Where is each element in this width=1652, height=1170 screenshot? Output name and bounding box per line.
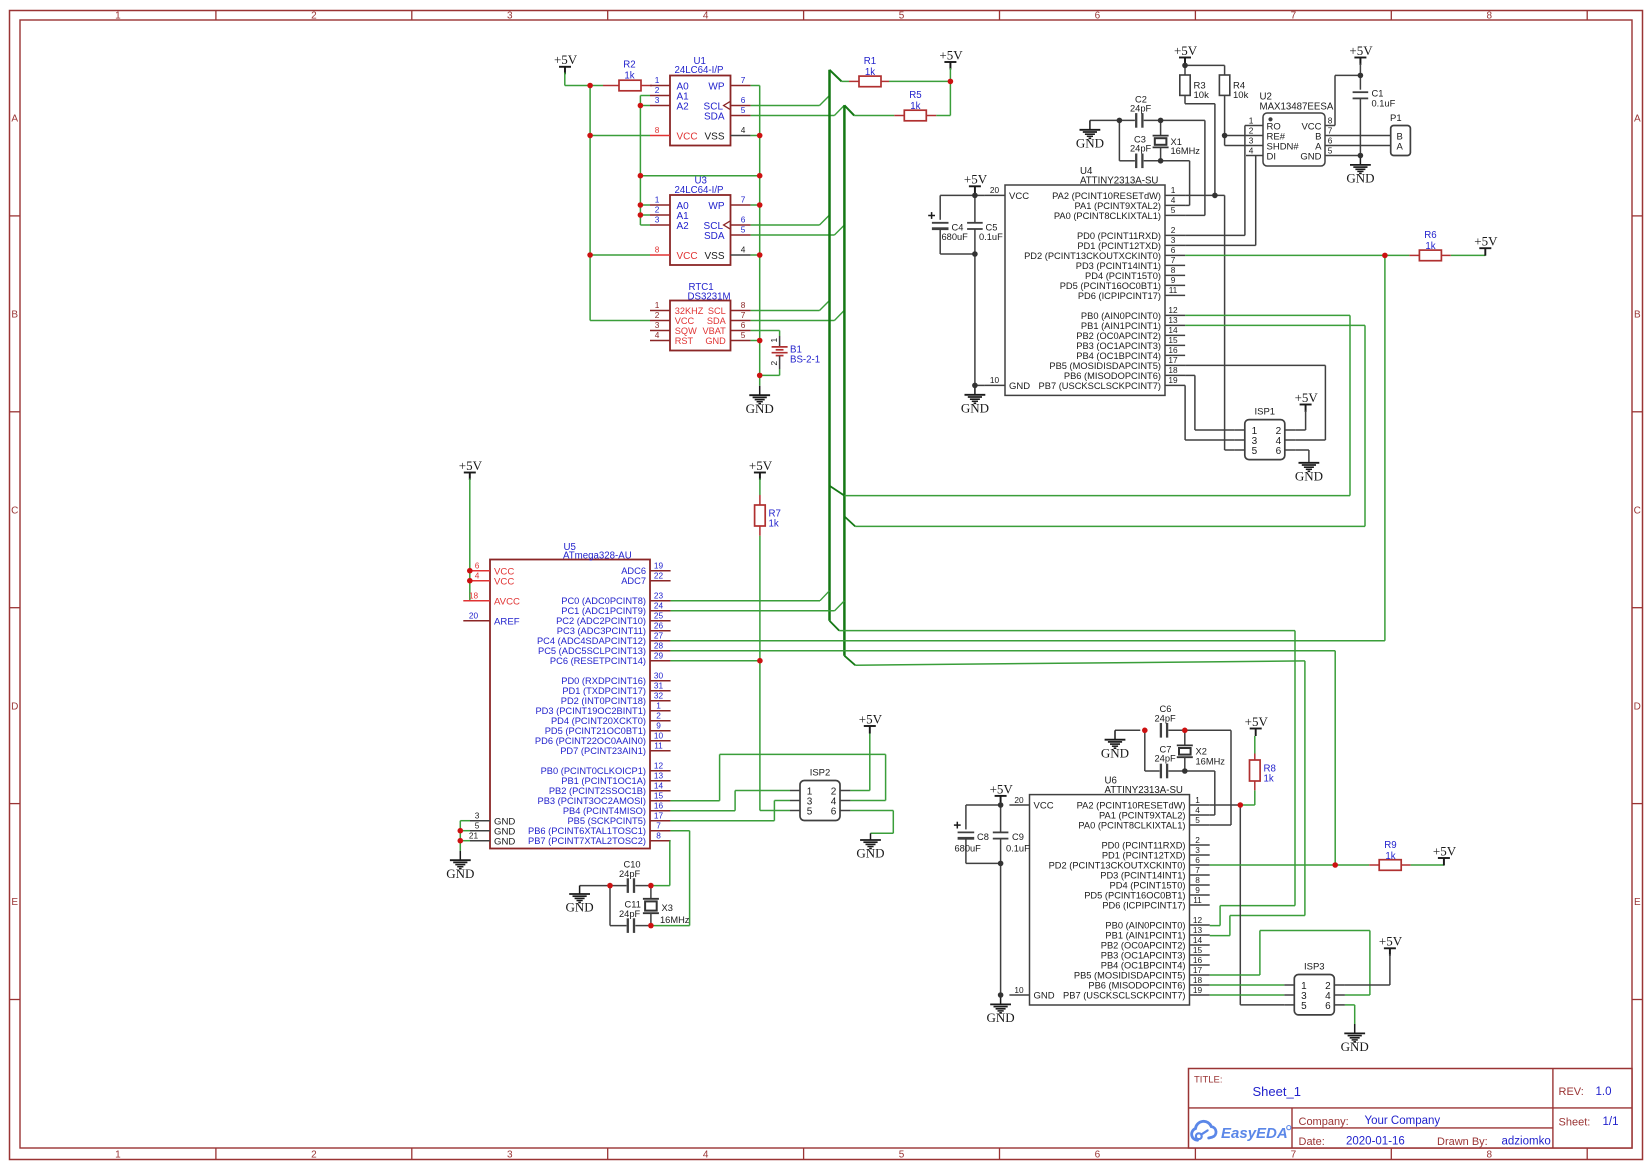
svg-text:VCC: VCC	[677, 131, 698, 142]
wire C3 to U4 PA1 XTAL2	[1161, 161, 1190, 206]
wire U5 PB7 to crystal	[651, 841, 671, 886]
chip U1 24LC64-I/P	[650, 56, 751, 146]
node junction	[638, 202, 644, 208]
wire U4 PB7 to ISP1 pin3	[1185, 385, 1235, 440]
node junction GND pin21	[458, 838, 464, 844]
svg-text:16MHz: 16MHz	[660, 915, 690, 925]
svg-text:24pF: 24pF	[1155, 753, 1177, 763]
svg-text:0.1uF: 0.1uF	[979, 232, 1003, 242]
wire ISP1 pin2 +5V	[1295, 411, 1305, 431]
svg-text:SQW: SQW	[675, 326, 697, 336]
wire RTC1 GND	[751, 340, 760, 342]
svg-text:7: 7	[741, 195, 746, 205]
wire C4/C5 gnd rail	[940, 253, 975, 255]
svg-text:6: 6	[475, 561, 480, 571]
wire U5 PC0 to SCL bus	[671, 591, 830, 601]
svg-text:1k: 1k	[624, 71, 634, 82]
capacitor C10 24pF	[580, 860, 651, 893]
svg-text:8: 8	[741, 300, 746, 310]
resistor R6 1k	[1385, 230, 1485, 261]
svg-text:VCC: VCC	[1034, 801, 1054, 812]
svg-text:10: 10	[990, 375, 1000, 385]
svg-text:680uF: 680uF	[942, 232, 969, 242]
svg-text:19: 19	[654, 561, 664, 571]
svg-text:4: 4	[741, 245, 746, 255]
svg-text:2: 2	[655, 205, 660, 215]
wire SCL bus extension to U6 PB0	[830, 621, 1296, 926]
svg-text:3: 3	[655, 320, 660, 330]
svg-text:WP: WP	[708, 81, 724, 92]
svg-text:3: 3	[655, 95, 660, 105]
svg-text:17: 17	[1168, 355, 1178, 365]
power +5V net flag (R6)	[1474, 234, 1498, 256]
wire U1 A1/A2 tie	[640, 96, 650, 226]
crystal X3 16MHz	[643, 886, 690, 926]
svg-text:24pF: 24pF	[619, 909, 641, 919]
power +5V net flag (U1 area)	[554, 52, 578, 74]
svg-text:PC5 (ADC5SCLPCINT13): PC5 (ADC5SCLPCINT13)	[538, 646, 646, 656]
wire PA2 to ISP1 pin5	[1225, 195, 1235, 450]
node junction A2	[638, 103, 644, 109]
svg-text:3: 3	[1195, 845, 1200, 855]
svg-text:17: 17	[654, 811, 664, 821]
svg-text:680uF: 680uF	[955, 843, 982, 853]
node junction	[998, 992, 1004, 998]
svg-text:25: 25	[654, 611, 664, 621]
svg-text:PD4 (PCINT20XCKT0): PD4 (PCINT20XCKT0)	[551, 716, 646, 726]
svg-text:24: 24	[654, 601, 664, 611]
svg-text:PB6 (PCINT6XTAL1TOSC1): PB6 (PCINT6XTAL1TOSC1)	[528, 826, 646, 836]
svg-text:6: 6	[831, 806, 837, 817]
power +5V net flag (U5)	[459, 458, 483, 480]
svg-text:1k: 1k	[910, 101, 920, 112]
node junction	[972, 383, 978, 389]
svg-text:1: 1	[655, 300, 660, 310]
svg-text:14: 14	[1193, 935, 1203, 945]
ground GND (U4)	[961, 385, 989, 415]
svg-text:+5V: +5V	[1295, 390, 1319, 405]
node junction	[998, 861, 1004, 867]
svg-text:1.0: 1.0	[1596, 1086, 1612, 1098]
svg-text:4: 4	[1195, 805, 1200, 815]
wire ISP2 pin2 +5V	[850, 734, 869, 791]
svg-text:C: C	[11, 505, 18, 516]
svg-text:+5V: +5V	[1349, 43, 1373, 58]
svg-text:1k: 1k	[1264, 774, 1274, 785]
svg-text:C5: C5	[986, 222, 998, 232]
node junction	[1158, 158, 1164, 164]
svg-text:PD2 (PCINT13CKOUTXCKINT0): PD2 (PCINT13CKOUTXCKINT0)	[1024, 251, 1161, 261]
svg-text:28: 28	[654, 641, 664, 651]
svg-text:15: 15	[1168, 335, 1178, 345]
svg-text:3: 3	[1171, 235, 1176, 245]
svg-text:R5: R5	[909, 90, 921, 101]
svg-text:D: D	[1634, 701, 1641, 712]
node junction	[972, 193, 978, 199]
node junction	[1182, 728, 1188, 734]
wire SCL bus	[830, 70, 842, 621]
node junction	[648, 923, 654, 929]
svg-text:SDA: SDA	[704, 231, 725, 242]
svg-text:Company:: Company:	[1299, 1116, 1349, 1128]
resistor R8 1k	[1240, 736, 1276, 805]
svg-text:PD4 (PCINT15T0): PD4 (PCINT15T0)	[1110, 880, 1186, 890]
svg-text:29: 29	[654, 651, 664, 661]
svg-text:31: 31	[654, 681, 664, 691]
svg-text:PB7 (USCKSCLSCKPCINT7): PB7 (USCKSCLSCKPCINT7)	[1063, 990, 1185, 1000]
svg-text:B: B	[11, 309, 18, 320]
svg-text:A2: A2	[677, 101, 690, 112]
node junction	[757, 202, 763, 208]
node junction RTC GND	[757, 338, 763, 344]
svg-text:WP: WP	[708, 201, 724, 212]
svg-text:3: 3	[507, 1149, 513, 1160]
node junction	[998, 802, 1004, 808]
node junction	[1142, 728, 1148, 734]
svg-text:VSS: VSS	[704, 251, 724, 262]
svg-text:VCC: VCC	[494, 576, 514, 587]
svg-text:PD7 (PCINT23AIN1): PD7 (PCINT23AIN1)	[560, 746, 646, 756]
svg-text:12: 12	[654, 761, 664, 771]
svg-text:PB1 (AIN1PCINT1): PB1 (AIN1PCINT1)	[1105, 930, 1185, 940]
svg-text:C1: C1	[1372, 89, 1384, 99]
svg-text:PB3 (OC1APCINT3): PB3 (OC1APCINT3)	[1076, 341, 1161, 351]
svg-text:B: B	[1634, 309, 1641, 320]
svg-text:+5V: +5V	[459, 458, 483, 473]
wire U2 VCC to +5V	[1325, 75, 1360, 125]
svg-text:4: 4	[741, 125, 746, 135]
wire PA2 to ISP3 pin5	[1240, 805, 1284, 1005]
svg-text:SDA: SDA	[707, 316, 727, 326]
wire U3 VSS	[751, 254, 760, 256]
svg-text:5: 5	[1252, 446, 1258, 457]
svg-text:4: 4	[1171, 195, 1176, 205]
svg-text:PB5 (MOSIDISDAPCINT5): PB5 (MOSIDISDAPCINT5)	[1049, 361, 1161, 371]
wire U4 PB0 link	[1185, 314, 1350, 316]
svg-text:PC6 (RESETPCINT14): PC6 (RESETPCINT14)	[550, 656, 646, 666]
svg-text:9: 9	[1171, 275, 1176, 285]
wire SCL bus to U4 PB0 link	[830, 315, 1351, 495]
wire U2 GND	[1325, 155, 1360, 157]
svg-text:RST: RST	[675, 336, 694, 346]
svg-text:+5V: +5V	[749, 458, 773, 473]
svg-text:1/1: 1/1	[1603, 1116, 1619, 1128]
wire U3 A2	[640, 224, 650, 226]
svg-text:4: 4	[1249, 145, 1254, 155]
svg-text:7: 7	[656, 821, 661, 831]
node junction +5V/R2	[587, 83, 593, 89]
svg-text:8: 8	[1171, 265, 1176, 275]
wire C8/C9 gnd rail	[966, 862, 1001, 864]
wire ISP3 pin6 GND	[1345, 1005, 1355, 1034]
node junction R9	[1332, 862, 1338, 868]
wire U4 PD1 to U2 DI	[1185, 156, 1256, 246]
svg-text:1: 1	[115, 1149, 121, 1160]
svg-text:ADC6: ADC6	[621, 566, 646, 576]
wire ISP2 pin6 GND	[850, 811, 893, 834]
svg-text:1k: 1k	[1385, 851, 1395, 862]
capacitor C2 24pF	[1090, 94, 1161, 127]
ground GND (RTC area)	[746, 386, 774, 416]
svg-text:6: 6	[1195, 855, 1200, 865]
svg-text:PC4 (ADC4SDAPCINT12): PC4 (ADC4SDAPCINT12)	[537, 636, 646, 646]
svg-text:PA0 (PCINT8CLKIXTAL1): PA0 (PCINT8CLKIXTAL1)	[1078, 820, 1185, 830]
node junction	[638, 173, 644, 179]
svg-text:DS3231M: DS3231M	[688, 291, 731, 302]
wire SDA bus to U4 PB1 link	[844, 325, 1365, 526]
node junction R7/PC6	[757, 658, 763, 664]
node junction GND pin5	[458, 828, 464, 834]
wire battery to ground rail	[760, 369, 780, 375]
svg-text:GND: GND	[1346, 171, 1374, 186]
node junction	[1182, 63, 1188, 69]
svg-text:1: 1	[656, 701, 661, 711]
wire U5 PB3 MOSI to ISP2	[671, 754, 886, 800]
svg-text:PD5 (PCINT21OC0BT1): PD5 (PCINT21OC0BT1)	[545, 726, 646, 736]
svg-text:3: 3	[655, 215, 660, 225]
svg-text:3: 3	[475, 811, 480, 821]
svg-text:GND: GND	[746, 401, 774, 416]
svg-text:PD0 (PCINT11RXD): PD0 (PCINT11RXD)	[1101, 840, 1185, 850]
svg-text:20: 20	[469, 611, 479, 621]
power +5V net flag (ISP1)	[1295, 390, 1319, 412]
svg-text:5: 5	[899, 10, 905, 21]
svg-text:GND: GND	[987, 1010, 1015, 1025]
EasyEDA logo	[1192, 1121, 1291, 1142]
svg-text:PA2 (PCINT10RESETdW): PA2 (PCINT10RESETdW)	[1077, 800, 1186, 810]
resistor R9 1k	[1335, 840, 1444, 871]
node junction	[648, 883, 654, 889]
wire U5 PB5 SCK to ISP2	[671, 801, 790, 821]
svg-text:PB2 (PCINT2SSOC1B): PB2 (PCINT2SSOC1B)	[549, 786, 646, 796]
svg-text:8: 8	[655, 245, 660, 255]
wire U1 VSS	[751, 135, 760, 137]
wire RTC1 VCC	[590, 320, 650, 322]
wire ISP3 pin2 +5V	[1345, 954, 1390, 985]
ground GND (U5)	[446, 851, 474, 881]
svg-text:X2: X2	[1196, 746, 1207, 756]
svg-text:SDA: SDA	[704, 111, 725, 122]
svg-text:2: 2	[1195, 835, 1200, 845]
svg-text:16: 16	[1168, 345, 1178, 355]
capacitor C4 680uF	[928, 195, 975, 254]
svg-text:GND: GND	[1076, 135, 1104, 150]
capacitor C1 0.1uF	[1353, 75, 1396, 155]
svg-text:7: 7	[741, 75, 746, 85]
power +5V net flag (R1)	[939, 47, 963, 81]
svg-text:GND: GND	[566, 900, 594, 915]
svg-text:32: 32	[654, 691, 664, 701]
svg-text:8: 8	[1195, 875, 1200, 885]
wire U4 PA2 row	[1185, 194, 1225, 196]
resistor R5 1k	[854, 81, 950, 120]
svg-text:22: 22	[654, 571, 664, 581]
chip RTC1 DS3231M	[650, 282, 751, 351]
node junction U1 VSS	[757, 133, 763, 139]
wire U6 PB7 to ISP3 pin3	[1210, 994, 1285, 996]
svg-text:9: 9	[656, 721, 661, 731]
wire U4 PB5 to ISP1 pin4	[1185, 365, 1325, 440]
chip U5 ATmega328-AU	[463, 542, 670, 849]
svg-text:1k: 1k	[865, 67, 875, 78]
wire U5 PC4 to U4 PD2 net	[671, 255, 1385, 640]
svg-text:20: 20	[1014, 795, 1024, 805]
wire U4 PD0 to U2 RO	[1185, 126, 1246, 236]
svg-text:PD2 (INT0PCINT18): PD2 (INT0PCINT18)	[561, 696, 646, 706]
svg-text:2: 2	[311, 10, 317, 21]
chip U6 ATTINY2313A-SU	[1009, 776, 1209, 1005]
svg-text:PC3 (ADC3PCINT11): PC3 (ADC3PCINT11)	[557, 626, 646, 636]
svg-text:GND: GND	[1300, 152, 1321, 163]
svg-text:13: 13	[1168, 315, 1178, 325]
svg-text:32KHZ: 32KHZ	[675, 306, 704, 316]
resistor R2 1k	[590, 60, 652, 91]
svg-text:PD3 (PCINT14INT1): PD3 (PCINT14INT1)	[1100, 870, 1185, 880]
svg-text:4: 4	[655, 330, 660, 340]
crystal X2 16MHz	[1177, 730, 1225, 771]
svg-text:2: 2	[656, 711, 661, 721]
svg-text:VBAT: VBAT	[702, 326, 726, 336]
svg-text:2: 2	[655, 310, 660, 320]
svg-text:6: 6	[1276, 446, 1282, 457]
ground GND (U2)	[1346, 156, 1374, 186]
ground GND (U6)	[987, 995, 1015, 1025]
node junction U3 VCC	[587, 252, 593, 258]
svg-text:1: 1	[1195, 795, 1200, 805]
svg-text:8: 8	[655, 125, 660, 135]
svg-text:2020-01-16: 2020-01-16	[1346, 1136, 1405, 1148]
svg-text:5: 5	[741, 330, 746, 340]
wire tie to ground rail	[640, 175, 759, 177]
svg-text:15: 15	[1193, 945, 1203, 955]
connector ISP3	[1284, 962, 1345, 1015]
svg-text:PB3 (OC1APCINT3): PB3 (OC1APCINT3)	[1101, 950, 1186, 960]
wire U5 PC6 reset	[671, 660, 760, 662]
svg-text:ATTINY2313A-SU: ATTINY2313A-SU	[1080, 175, 1158, 186]
svg-text:5: 5	[899, 1149, 905, 1160]
ground GND (X2 area)	[1101, 730, 1129, 760]
svg-text:2: 2	[769, 361, 779, 366]
wire U6 PB6 to ISP3 pin1	[1210, 984, 1285, 986]
svg-text:GND: GND	[1009, 381, 1030, 392]
wire U2 A to P1	[1325, 145, 1391, 147]
svg-text:C9: C9	[1012, 832, 1024, 842]
power +5V net flag (ISP3)	[1379, 934, 1403, 956]
node junction R1/+5V	[948, 79, 954, 85]
svg-text:P1: P1	[1390, 113, 1402, 124]
svg-text:5: 5	[741, 225, 746, 235]
wire +5V to U5 VCC rail	[469, 479, 471, 601]
svg-text:PD5 (PCINT16OC0BT1): PD5 (PCINT16OC0BT1)	[1084, 890, 1185, 900]
node junction R3/PA2	[1212, 193, 1218, 199]
wire U6 PD2 net	[1210, 864, 1336, 866]
wire U1 SDA to bus	[751, 105, 845, 115]
wire U3 VCC	[590, 254, 650, 256]
svg-text:PD3 (PCINT14INT1): PD3 (PCINT14INT1)	[1076, 261, 1161, 271]
svg-text:5: 5	[475, 821, 480, 831]
svg-text:A: A	[1634, 114, 1641, 125]
svg-text:10: 10	[654, 731, 664, 741]
svg-text:GND: GND	[494, 836, 515, 847]
svg-text:11: 11	[1193, 895, 1202, 905]
wire U2 B to P1	[1325, 135, 1391, 137]
wire U1 SCL to bus	[751, 96, 830, 106]
svg-text:C10: C10	[624, 860, 641, 870]
svg-text:1: 1	[1171, 185, 1176, 195]
svg-text:PB4 (PCINT4MISO): PB4 (PCINT4MISO)	[563, 806, 646, 816]
svg-text:PD0 (RXDPCINT16): PD0 (RXDPCINT16)	[561, 676, 646, 686]
battery B1 BS-2-1	[769, 336, 820, 369]
capacitor C3 24pF	[1119, 120, 1160, 168]
svg-text:PD4 (PCINT15T0): PD4 (PCINT15T0)	[1085, 271, 1161, 281]
svg-text:E: E	[11, 897, 18, 908]
wire R3 to U4 PA2	[1185, 95, 1215, 195]
wire ISP1 pin6 GND	[1295, 450, 1309, 463]
svg-text:PD6 (PCINT22OC0AAIN0): PD6 (PCINT22OC0AAIN0)	[535, 736, 646, 746]
svg-text:Sheet:: Sheet:	[1559, 1117, 1591, 1129]
wire U3 SCL to bus	[751, 215, 830, 225]
svg-text:10k: 10k	[1194, 90, 1210, 101]
svg-text:PB0 (PCINT0CLKOICP1): PB0 (PCINT0CLKOICP1)	[541, 766, 646, 776]
svg-text:2: 2	[311, 1149, 317, 1160]
svg-text:PC1 (ADC1PCINT9): PC1 (ADC1PCINT9)	[561, 606, 646, 616]
svg-text:GND: GND	[961, 400, 989, 415]
svg-text:D: D	[11, 701, 18, 712]
capacitor C11 24pF	[610, 886, 651, 933]
svg-text:PB0 (AIN0PCINT0): PB0 (AIN0PCINT0)	[1081, 311, 1161, 321]
svg-text:ADC7: ADC7	[621, 576, 646, 586]
svg-text:16MHz: 16MHz	[1171, 146, 1201, 156]
svg-text:4: 4	[703, 10, 709, 21]
svg-text:AREF: AREF	[494, 616, 520, 627]
node junction U5 VCC pin4	[467, 578, 473, 584]
svg-text:1: 1	[655, 75, 660, 85]
svg-text:18: 18	[1168, 365, 1178, 375]
svg-text:C11: C11	[625, 900, 641, 910]
svg-text:13: 13	[1193, 925, 1203, 935]
svg-text:5: 5	[1328, 145, 1333, 155]
svg-text:GND: GND	[1034, 991, 1055, 1002]
svg-text:PB2 (OC0APCINT2): PB2 (OC0APCINT2)	[1101, 940, 1186, 950]
svg-text:ATTINY2313A-SU: ATTINY2313A-SU	[1105, 785, 1183, 796]
wire C7 to U6 PA1	[1185, 771, 1215, 815]
svg-text:14: 14	[654, 781, 664, 791]
svg-text:C4: C4	[952, 222, 964, 232]
svg-text:7: 7	[741, 310, 746, 320]
ground GND (ISP2)	[856, 833, 884, 860]
wire U3 SDA to bus	[751, 225, 845, 235]
svg-text:+5V: +5V	[1174, 43, 1198, 58]
svg-text:19: 19	[1193, 985, 1203, 995]
node junction	[1182, 768, 1188, 774]
svg-text:19: 19	[1168, 375, 1178, 385]
capacitor C8 680uF	[954, 805, 1001, 863]
svg-text:27: 27	[654, 631, 664, 641]
svg-text:20: 20	[990, 185, 1000, 195]
svg-text:PB4 (OC1BPCINT4): PB4 (OC1BPCINT4)	[1076, 351, 1161, 361]
svg-text:PB7 (PCINT7XTAL2TOSC2): PB7 (PCINT7XTAL2TOSC2)	[528, 836, 646, 846]
svg-text:PD6 (ICPIPCINT17): PD6 (ICPIPCINT17)	[1078, 291, 1161, 301]
svg-text:adziomko: adziomko	[1502, 1136, 1551, 1148]
svg-text:PD5 (PCINT16OC0BT1): PD5 (PCINT16OC0BT1)	[1060, 281, 1161, 291]
svg-text:PB3 (PCINT3OC2AMOSI): PB3 (PCINT3OC2AMOSI)	[538, 796, 647, 806]
wire U4 VCC	[975, 194, 985, 196]
ground GND (X1 area)	[1076, 120, 1104, 150]
svg-text:7: 7	[1328, 125, 1333, 135]
svg-text:1k: 1k	[769, 519, 779, 530]
svg-text:PA1 (PCINT9XTAL2): PA1 (PCINT9XTAL2)	[1075, 201, 1161, 211]
wire U6 PB5 to ISP3 pin4	[1210, 931, 1370, 996]
